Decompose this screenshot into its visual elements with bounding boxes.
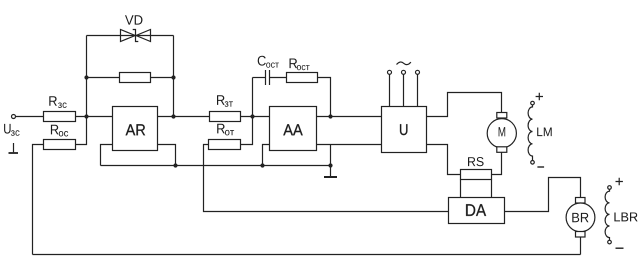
label BR [572, 213, 588, 222]
node Uzc input terminal [12, 115, 16, 119]
label Cost [258, 56, 279, 68]
wire AR lower-right stub [158, 145, 176, 166]
wire AA feedback top left [253, 77, 266, 79]
wire Rzc to AR input [76, 116, 113, 118]
wire Rzt to AA [241, 116, 270, 118]
label tilde AC [397, 62, 411, 65]
inductor LM minus terminal [531, 161, 544, 168]
terminal stems U top [388, 70, 420, 106]
inductor LM plus terminal [531, 93, 543, 105]
label VD [125, 15, 143, 24]
capacitor Cost [266, 70, 270, 85]
converter block U [382, 107, 427, 153]
label AA [283, 124, 302, 135]
wire AR feedback resistor branch [87, 77, 174, 79]
wire zero rail [101, 165, 331, 167]
wire Rot left to DA output [204, 145, 449, 212]
wire Rost right leg down [318, 78, 331, 117]
label DA [466, 204, 486, 216]
tachogenerator BR [566, 198, 595, 238]
wire AA lower-left stub [263, 145, 270, 166]
wire input terminal to Rzc [16, 116, 44, 118]
ground symbol [324, 176, 337, 178]
amplifier block DA [449, 198, 505, 224]
wire Rot right to node2 [241, 117, 253, 145]
resistor Rost [287, 73, 318, 83]
node dot AA zero [260, 163, 264, 167]
wire U lower to RS [427, 145, 461, 175]
resistor Rot [209, 140, 241, 150]
label Rzt [217, 95, 233, 107]
label Rost [290, 59, 310, 71]
ground input [9, 143, 19, 153]
wire BR to bottom rail [580, 237, 582, 255]
label LM [537, 128, 552, 137]
node dot ground junction [328, 163, 332, 167]
wire RS to DA sense left [460, 180, 462, 198]
inductor LM coil [528, 105, 532, 160]
wire U to motor top [427, 93, 502, 117]
inductor LBR coil [605, 189, 609, 240]
wire AA feedback left leg [252, 78, 254, 117]
wire AR feedback right leg [173, 36, 175, 117]
wire drop to ground [330, 145, 332, 177]
label Uzc [4, 124, 20, 136]
shunt RS [461, 170, 492, 180]
node dot feedback right [171, 75, 175, 79]
label AR [126, 124, 146, 135]
wire RS to DA sense right [491, 180, 493, 198]
node summing junction 1 dot [84, 114, 88, 118]
label U [400, 124, 407, 135]
wire AA lower right to U [317, 144, 382, 146]
wire Roc left down to bottom feedback [33, 145, 44, 255]
resistor AR feedback [120, 73, 151, 83]
label Rzc [49, 96, 66, 108]
label RS [468, 157, 484, 166]
inductor LBR minus terminal [608, 240, 624, 248]
wire VD top branch [87, 35, 174, 37]
node dot feedback left [84, 75, 88, 79]
op-amp block AR [113, 107, 158, 151]
resistor Rzc [44, 112, 76, 122]
node dot AR zero [173, 163, 177, 167]
label Rot [217, 124, 234, 136]
label Roc [51, 125, 68, 137]
node AA output dot [328, 114, 332, 118]
op-amp block AA [270, 107, 317, 151]
wire AR output [158, 116, 210, 118]
diode VD bidirectional zener [121, 30, 151, 42]
wire cap to Rost [270, 77, 287, 79]
wire AA output to U [317, 116, 382, 118]
resistor Rzt [210, 112, 241, 122]
inductor LBR plus terminal [608, 178, 623, 190]
motor M [487, 113, 516, 153]
wire bottom speed feedback [33, 254, 581, 256]
label M [499, 127, 506, 136]
wire AR lower-left stub [101, 145, 113, 166]
label LBR [614, 213, 637, 222]
wire DA output right to BR [505, 178, 581, 212]
wire Roc right to node1 [76, 117, 87, 145]
node dot 2 [250, 114, 254, 118]
wire motor to RS right [492, 152, 502, 174]
wire AR feedback left leg [86, 36, 88, 117]
node AR output dot [171, 114, 175, 118]
resistor Roc [44, 140, 76, 150]
